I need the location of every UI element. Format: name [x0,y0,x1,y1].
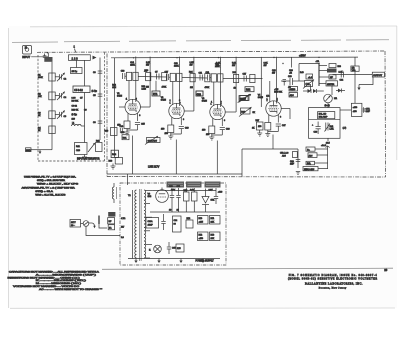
amplifier BAL AMP box [318,112,335,119]
capacitor C6 trimmer [55,111,67,119]
svg-text:900K: 900K [38,77,43,79]
resistor R46 [293,152,298,158]
svg-text:WRG + BLK KT , ELY CPS: WRG + BLK KT , ELY CPS [37,184,79,186]
node +7A [318,63,320,65]
BOTTOM-RULE [102,268,393,269]
svg-text:(0± 2): (0± 2) [325,105,331,107]
diode CR1 [308,89,312,93]
control B+ ADJ [306,147,315,151]
wire [84,93,86,125]
svg-text:ADJ: ADJ [290,94,294,97]
terminal strip heater 3 [205,182,221,188]
wire [327,138,329,141]
svg-text:A ——— MICROFARADS ( UUF ): A ——— MICROFARADS ( UUF ) [36,273,96,276]
svg-text:ADJ: ADJ [309,155,313,158]
terminal strip dark [108,212,115,217]
capacitor C35 [167,242,177,254]
ground [111,164,116,170]
svg-text:1 2 3: 1 2 3 [72,56,79,60]
node [176,57,177,58]
resistor R39 vertical [291,57,293,67]
switch S3 GAIN [238,94,251,103]
capacitor C17 [243,73,248,81]
capacitor C2A [290,160,300,166]
wire [299,63,319,65]
wire [354,75,356,104]
tube V3 [210,104,225,119]
svg-text:(2-7)μ: (2-7)μ [72,114,77,116]
wire [171,117,173,125]
wire [260,57,262,107]
svg-text:117V: 117V [71,222,76,224]
label R39 [289,70,294,75]
connector P1 line [70,220,81,228]
diode CR3 [338,89,342,93]
resistor R26 [265,123,271,131]
tube V2 [169,103,184,118]
label cluster mid [72,98,88,121]
switch S1 block [44,57,52,62]
wire [268,130,279,132]
svg-text:1W: 1W [216,65,219,67]
wire tap [146,243,152,245]
wire drop V4 [272,135,274,150]
resistor R75 [176,244,184,252]
potentiometer R36 [239,107,256,117]
svg-text:R32: R32 [246,89,251,92]
choke L2 [113,183,117,203]
resistor R62 [111,150,118,157]
resistor R26 label [190,62,195,66]
wire divider [309,118,341,120]
capacitor C1 [71,68,83,74]
resistor R43 [329,75,336,79]
resistor R65 [184,188,190,212]
node [218,57,219,58]
svg-text:METER: METER [327,84,335,86]
wire plate V2 [179,57,181,106]
wire [223,78,263,80]
svg-text:SENS: SENS [290,89,296,91]
switch S2 [81,221,93,227]
capacitor C24 [340,72,345,82]
control GAIN ADJ [145,136,160,145]
svg-text:220K: 220K [174,66,179,68]
svg-text:ADJ: ADJ [282,154,286,157]
wire [327,146,329,169]
label +7.5 [274,89,282,94]
resistor R13 [133,72,138,80]
wire grid in V1 [119,106,125,108]
ground [157,259,160,264]
svg-text:STK) + SLA: STK) + SLA [35,190,53,193]
shield enclosure (main amplifier) [37,51,386,177]
svg-text:ZERO ADJ: ZERO ADJ [304,168,314,171]
wire heater drop V1 [132,136,134,175]
wire tap [146,203,150,205]
svg-text:2.4K: 2.4K [339,71,344,73]
svg-text:1: 1 [170,103,171,105]
wire [298,64,300,82]
ground [357,85,360,91]
resistor R20 label [146,62,151,67]
capacitor C20 [281,76,305,85]
svg-text:C33A: C33A [148,220,154,223]
wire [180,117,182,125]
connector J1 INPUT [22,46,31,59]
tube V4 [266,101,281,116]
switch S1 wafer [69,55,97,61]
svg-text:ASV-PERMA-FIL TY + 2 ( UMF DIS: ASV-PERMA-FIL TY + 2 ( UMF DIS WA [22,186,76,189]
svg-text:CAPACITORS NOT MARKED — ALL RE: CAPACITORS NOT MARKED — ALL REFERENCED W… [9,271,100,274]
node [133,57,134,58]
resistor R18 [146,73,151,81]
svg-text:INPUT ATTENUATOR: INPUT ATTENUATOR [77,157,100,160]
wire [235,57,237,112]
ground [265,132,270,137]
svg-text:R10 5K: R10 5K [72,110,79,112]
capacitor C33A [146,218,159,229]
resistor R30 [234,74,239,82]
rectifier SR1 [202,189,215,213]
svg-text:AC ——— WITH RESPECT TO CHASSIS: AC ——— WITH RESPECT TO CHASSIS ** [39,288,102,291]
wire plate out V3 [225,111,236,113]
capacitor C1A [43,54,47,58]
wire [241,149,243,177]
resistor R80 [108,218,115,224]
wire plate out V4 [281,108,290,110]
capacitor C29 [362,107,371,113]
ground [209,135,214,140]
potentiometer CAL [303,80,314,89]
terminal strip heater 1 [167,182,185,188]
resistor R66 [192,188,198,212]
svg-text:3: 3 [280,117,281,119]
wire [125,75,127,77]
resistor R24 [190,74,195,82]
capacitor C34 [173,216,182,232]
svg-text:INPUT: INPUT [22,55,30,59]
transformer T2 primary [135,189,141,261]
resistor R22 [209,126,215,134]
svg-text:OUTPUT: OUTPUT [373,75,383,77]
ground [257,133,262,136]
tube V5A cathode follower [351,57,359,74]
capacitor C19 [179,127,190,135]
svg-text:POWER SUPPLY: POWER SUPPLY [196,261,215,263]
resistor R42 [327,69,337,73]
wire plate V3 [220,57,222,107]
ground [201,259,204,264]
svg-text:2.2M: 2.2M [142,88,147,90]
svg-text:29: 29 [384,268,387,272]
wire [84,60,86,86]
capacitor column right C3 [93,58,102,141]
wire tap [146,230,150,232]
label R12 10M [112,85,117,90]
ground [168,134,173,139]
resistor R3 [38,111,55,119]
control METER panel [308,153,317,158]
label ON-1-2-3 ADJ [280,152,289,157]
wire [303,90,308,92]
wire [297,149,299,168]
wire [193,57,195,111]
svg-text:C8 82: C8 82 [72,106,78,108]
wire -150V bus [242,148,298,150]
resistor R25 [205,74,210,82]
wire [182,77,208,80]
capacitor C28 [312,122,321,135]
wire [289,109,291,120]
wire plate out V1 [140,106,150,108]
ground [134,259,137,264]
svg-text:4.7Ω: 4.7Ω [121,218,126,220]
wire [149,57,151,107]
svg-text:R39 56K: R39 56K [274,92,282,94]
fuse F1 [98,216,100,225]
node [318,57,319,58]
terminal GND [26,148,41,152]
wire [213,82,215,106]
wire [128,81,130,102]
svg-text:6: 6 [180,103,181,105]
resistor R12 [96,141,103,152]
svg-text:6AK5: 6AK5 [202,100,208,103]
resistor R81 [108,225,114,230]
wire [171,133,182,135]
svg-text:1.5K: 1.5K [330,129,335,131]
inductor L1 [72,123,82,127]
wire [138,76,166,79]
node [282,63,283,64]
capacitor C31 [176,186,181,212]
wire output [333,74,373,76]
wire [137,113,139,121]
svg-text:3: 3 [183,119,184,121]
regulator REG box [351,103,362,116]
switch S4 range B [289,93,298,98]
wire primary feed [132,190,134,259]
wire plate V4 [276,57,278,104]
label R38 [272,70,277,75]
ground [39,150,42,154]
wire J1 to attenuator [31,56,48,58]
wire [150,211,220,213]
resistor R32 [245,87,254,92]
control ZERO ADJ [303,167,318,171]
svg-text:1: 1 [211,104,212,106]
ground [125,130,130,135]
svg-text:V5A: V5A [352,69,356,72]
wire [152,189,216,191]
capacitor C11 [199,72,203,80]
capacitor C33B [161,214,165,230]
resistor R37 [256,120,264,130]
wire [127,129,138,131]
svg-text:STK) + 5UL BUS WIR: STK) + 5UL BUS WIR [37,180,66,182]
svg-text:15-7μ: 15-7μ [72,71,78,73]
svg-text:(+7): (+7) [343,128,347,130]
resistor R11 [75,143,88,155]
svg-text:M ——— MEGOHMS ( MΩ ): M ——— MEGOHMS ( MΩ ) [36,283,81,285]
resistor R2 [38,92,55,100]
resistor R33 label [232,62,237,67]
svg-text:RT1: RT1 [153,93,158,96]
switch S3 GAIN [239,94,252,103]
svg-text:K ——— KILOHMS ( KΩ ): K ——— KILOHMS ( KΩ ) [36,280,87,282]
capacitor C32 [214,188,218,204]
capacitor C23 [220,128,231,136]
svg-text:6AK5: 6AK5 [161,99,167,102]
capacitor C12 [196,91,203,96]
wire [212,134,223,136]
capacitor C17 [165,74,167,80]
capacitor C12 [196,91,203,96]
wire [340,109,351,111]
shield enclosure (power supply, dash-dot) [120,183,226,265]
wire heater bus 117V LINE [107,173,242,175]
wire [319,65,327,67]
svg-text:1W: 1W [272,73,275,75]
svg-text:C5 3-12: C5 3-12 [74,89,83,92]
capacitor C2 trimmer [55,73,67,81]
svg-text:1M: 1M [190,87,193,89]
resistor R19 [162,73,167,81]
resistor R18 [168,125,174,133]
wire [51,140,53,150]
wire output transformer primary [318,63,320,86]
label box +150V B [210,232,221,241]
svg-text:3: 3 [224,120,225,122]
ground [82,157,87,160]
control BAL [306,161,315,165]
svg-text:BAL AD: BAL AD [319,113,327,116]
wire chain [47,53,49,57]
capacitor C7A [155,71,159,79]
wire feedback [114,58,116,158]
wire [76,60,78,67]
svg-text:Boonton, New Jersey: Boonton, New Jersey [319,286,347,289]
wire heater drop V3 [216,141,218,175]
capacitor C40 [120,126,125,133]
svg-text:+150V: +150V [299,56,306,58]
wire [169,76,171,78]
svg-text:FIG. 7 SCHEMATIC DIAGRAM, IS: FIG. 7 SCHEMATIC DIAGRAM, ISSUE No. 648-… [289,274,378,277]
svg-text:LINE 117V: LINE 117V [148,166,160,169]
wire tap [146,189,153,191]
meter M1 [324,94,338,103]
label box +225V B [210,216,221,225]
resistor R40 [300,72,313,79]
potentiometer R49 [325,123,335,132]
svg-text:VOLTAGES NOT MARKED — VOLTS DC: VOLTAGES NOT MARKED — VOLTS DC [13,285,80,288]
resistor R41 [329,64,336,68]
wire [210,77,212,79]
label box +150V A [198,232,209,241]
shield enclosure (input attenuator, dashed) [38,53,105,162]
svg-text:RESISTORS NOT MARKED — OHMS (: RESISTORS NOT MARKED — OHMS ( Ω ) [8,276,80,279]
svg-text:470K: 470K [205,87,210,89]
resistor R61 [122,135,129,140]
capacitor C30 [169,186,174,212]
wire [127,113,129,121]
resistor R74 [186,218,193,228]
wire tap [146,257,150,259]
ground [179,259,182,264]
capacitor C21 [283,80,287,86]
lamp I1 [149,245,161,253]
svg-text:6AK5: 6AK5 [117,95,123,98]
wire [221,118,223,126]
wire heater feed [127,174,129,185]
terminal strip heater 2 [186,182,202,188]
resistor R1 [38,73,55,81]
wire heater drop V2 [175,140,177,175]
transformer T2 secondary [128,190,146,258]
node [273,57,274,58]
wire [84,155,86,158]
svg-text:6AK5: 6AK5 [258,96,264,99]
tube V6 rectifier [148,188,169,203]
svg-text:GND: GND [26,150,31,152]
svg-text:WRG + SLA TEL, BLK KTS: WRG + SLA TEL, BLK KTS [35,193,66,196]
resistor R20 [211,74,216,82]
svg-text:BRI AMP: BRI AMP [319,116,328,119]
connector OUTPUT [372,72,384,77]
svg-text:470K: 470K [162,87,167,89]
tube V1 [125,99,140,114]
capacitor C13 [122,73,124,79]
wire switch arm [92,223,94,227]
svg-text:1W: 1W [146,65,149,67]
wire [99,224,107,228]
wire plate V1 [135,57,137,103]
diode CR2 [313,89,317,93]
svg-text:(MODEL 300H-S2) SENSITIVE ELEC: (MODEL 300H-S2) SENSITIVE ELECTRONIC VOL… [288,279,377,281]
label R16 2.2M [142,86,147,90]
wire [269,81,271,103]
wire [331,86,333,95]
resistor R31 [250,74,255,82]
wire [212,118,214,126]
wire [277,115,279,123]
svg-text:+14.6: +14.6 [321,145,327,147]
svg-text:6: 6 [221,104,222,106]
svg-text:R9 50K: R9 50K [72,101,79,103]
resistor R21 [218,74,223,82]
wire tap [146,216,152,218]
svg-text:40MF: 40MF [148,225,154,227]
wire B+ bus [111,56,358,59]
wire [86,226,120,235]
resistor R17 [177,73,182,81]
wire plate out V2 [184,110,194,112]
wire [172,82,174,106]
svg-text:USE PERMA-FIL TY + 0.5 UUF EQU: USE PERMA-FIL TY + 0.5 UUF EQU DIA. [24,176,76,179]
resistor R16 [170,73,175,81]
wire bottom rail [128,258,220,260]
capacitor C4 trimmer [55,92,67,100]
capacitor C15 [135,123,146,131]
svg-text:1W: 1W [232,65,235,67]
label box +225V A [198,216,209,225]
resistor R27 label [216,62,221,67]
wire [259,130,261,133]
svg-text:(2-7)μ: (2-7)μ [92,91,97,93]
amplifier U bridge box outer [309,108,341,139]
wire [359,77,373,85]
